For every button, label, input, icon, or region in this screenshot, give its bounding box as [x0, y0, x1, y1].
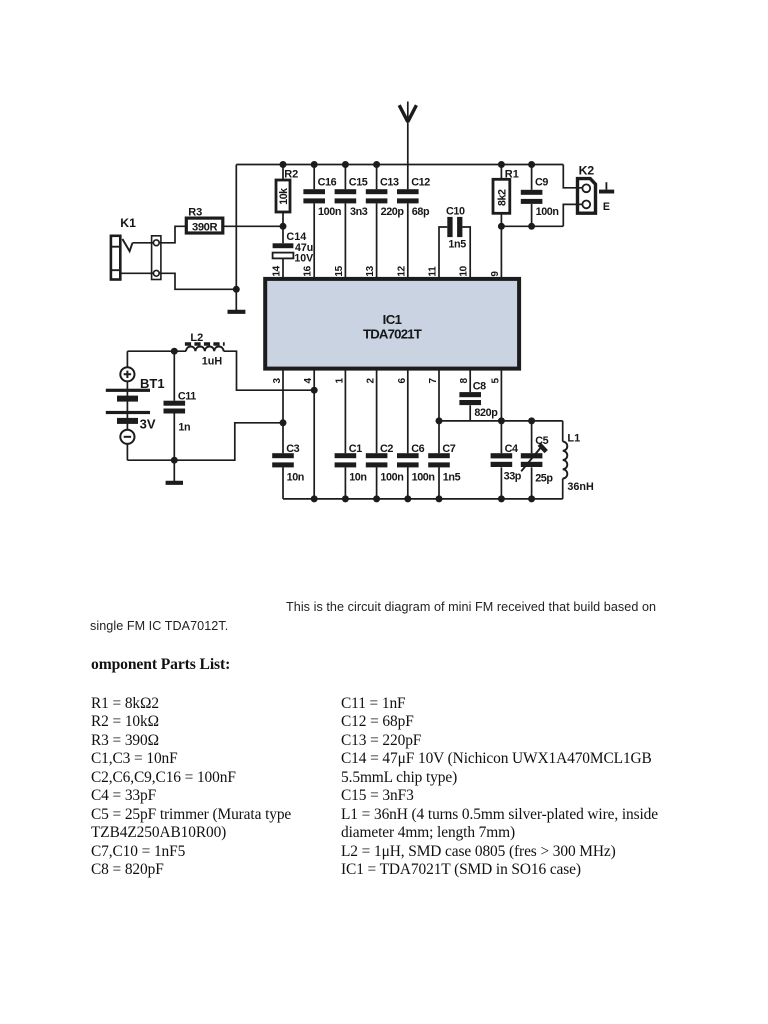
- svg-text:C8: C8: [473, 380, 486, 392]
- capacitor C2 100n: [366, 369, 404, 499]
- wire battery bottom rail: [127, 423, 283, 460]
- svg-text:8: 8: [459, 378, 470, 384]
- svg-text:3: 3: [272, 378, 283, 384]
- svg-text:100n: 100n: [412, 472, 435, 484]
- node bus C4: [498, 495, 505, 502]
- node bus C2: [373, 495, 380, 502]
- svg-text:C6: C6: [411, 443, 424, 455]
- svg-text:10k: 10k: [278, 188, 290, 205]
- svg-text:33p: 33p: [504, 470, 522, 482]
- capacitor C12 68p: [397, 165, 430, 279]
- node pin3 wire: [280, 419, 287, 426]
- connector K1: [111, 216, 161, 280]
- svg-text:K2: K2: [579, 163, 595, 177]
- trimmer capacitor C5 25p: [521, 421, 554, 499]
- earphone symbol E: [599, 182, 614, 213]
- wire mid rail pins 7-5 to L1: [439, 420, 563, 422]
- node bus C9: [528, 161, 535, 168]
- resistor R2 10k: [276, 165, 298, 227]
- resistor R1 8k2: [493, 165, 519, 279]
- wire to K2 top: [563, 165, 582, 188]
- capacitor C8 820p: [459, 369, 498, 421]
- node bus C16: [311, 161, 318, 168]
- capacitor C11 1n: [164, 351, 197, 460]
- capacitor C14 47u 10V: [273, 226, 314, 279]
- capacitor C1 10n: [335, 369, 367, 499]
- svg-text:1n5: 1n5: [443, 472, 461, 484]
- svg-text:C11: C11: [178, 390, 196, 402]
- wire R3 to R2 node: [223, 225, 283, 227]
- node pin4 wire: [311, 387, 318, 394]
- node bus C1: [342, 495, 349, 502]
- ground: [228, 310, 246, 314]
- connector K2: [578, 163, 596, 213]
- svg-text:10n: 10n: [349, 472, 366, 484]
- wire to K2 bottom: [563, 204, 582, 226]
- capacitor C13 220p: [366, 165, 405, 279]
- svg-text:C14: C14: [286, 231, 306, 243]
- svg-text:R1: R1: [505, 168, 519, 180]
- svg-text:3V: 3V: [140, 417, 156, 432]
- wire bus left drop: [235, 165, 237, 312]
- node C5 rail: [528, 417, 535, 424]
- parts list heading: [91, 656, 230, 675]
- node C9 bottom: [528, 223, 535, 230]
- svg-text:100n: 100n: [380, 472, 403, 484]
- parts list right column: [341, 695, 658, 880]
- wire BT1 top to L2: [127, 350, 186, 352]
- svg-text:C15: C15: [349, 177, 368, 189]
- svg-text:15: 15: [334, 265, 345, 276]
- svg-text:3n3: 3n3: [350, 206, 368, 218]
- svg-text:12: 12: [396, 265, 407, 276]
- svg-text:220p: 220p: [381, 206, 405, 218]
- capacitor C10 1n5: [439, 205, 470, 279]
- svg-text:16: 16: [303, 265, 314, 276]
- capacitor C9 100n: [521, 165, 559, 227]
- wire pin 4 down: [313, 369, 315, 499]
- svg-text:1n5: 1n5: [448, 238, 466, 250]
- svg-text:36nH: 36nH: [567, 481, 594, 493]
- svg-text:C5: C5: [535, 435, 548, 447]
- svg-text:100n: 100n: [536, 206, 559, 218]
- svg-text:14: 14: [272, 265, 283, 276]
- svg-text:820p: 820p: [474, 407, 498, 419]
- node pin5 rail: [498, 417, 505, 424]
- svg-text:6: 6: [397, 378, 408, 384]
- capacitor C7 1n5: [428, 369, 460, 499]
- op-amp IC1 TDA7021T body: [265, 279, 519, 369]
- wire top bus: [236, 164, 563, 166]
- svg-text:1: 1: [334, 378, 345, 384]
- ground below C11: [166, 460, 183, 483]
- svg-text:9: 9: [490, 271, 501, 277]
- node bus R2: [280, 161, 287, 168]
- svg-text:100n: 100n: [318, 206, 341, 218]
- wire R1 C9 bottom rail: [501, 225, 563, 227]
- node C11 bottom: [171, 457, 178, 464]
- node bus pin4: [311, 495, 318, 502]
- svg-text:L1: L1: [567, 432, 580, 444]
- parts list left column: [91, 695, 291, 880]
- wire bottom bus: [283, 498, 563, 500]
- antenna: [399, 102, 416, 165]
- svg-text:IC1: IC1: [383, 312, 402, 327]
- svg-text:7: 7: [428, 378, 439, 384]
- inductor L1 36nH: [563, 421, 594, 499]
- svg-text:C3: C3: [286, 443, 299, 455]
- svg-text:10: 10: [459, 265, 470, 276]
- svg-text:TDA7021T: TDA7021T: [363, 326, 422, 341]
- svg-text:K1: K1: [120, 216, 136, 230]
- node C11 top: [171, 348, 178, 355]
- svg-text:13: 13: [365, 265, 376, 276]
- capacitor C16 100n: [303, 165, 341, 279]
- svg-text:C4: C4: [505, 443, 518, 455]
- svg-text:8k2: 8k2: [497, 189, 509, 206]
- svg-text:C2: C2: [380, 443, 393, 455]
- svg-text:1n: 1n: [178, 421, 190, 433]
- svg-text:1uH: 1uH: [202, 356, 223, 368]
- wire K1 bottom to ground node: [120, 273, 236, 289]
- caption text: [286, 600, 656, 614]
- svg-text:5: 5: [490, 378, 501, 384]
- node bus C7: [436, 495, 443, 502]
- svg-text:10V: 10V: [294, 252, 313, 264]
- svg-text:L2: L2: [190, 332, 203, 344]
- svg-text:C7: C7: [442, 443, 455, 455]
- svg-text:C10: C10: [446, 205, 465, 217]
- svg-text:E: E: [603, 201, 610, 213]
- capacitor C6 100n: [397, 369, 435, 499]
- node bus C5: [528, 495, 535, 502]
- capacitor C3 10n: [272, 369, 304, 499]
- resistor R3 390R: [186, 207, 223, 234]
- node junction K1-bottom: [233, 286, 240, 293]
- inductor L2 1uH: [185, 332, 225, 368]
- svg-text:25p: 25p: [535, 472, 553, 484]
- svg-text:4: 4: [303, 378, 314, 384]
- svg-text:68p: 68p: [412, 206, 430, 218]
- svg-text:R3: R3: [188, 207, 202, 219]
- svg-text:2: 2: [366, 378, 377, 384]
- svg-text:C12: C12: [411, 177, 430, 189]
- svg-text:C1: C1: [349, 443, 362, 455]
- capacitor C15 3n3: [335, 165, 368, 279]
- svg-text:BT1: BT1: [140, 376, 165, 391]
- node bus C15: [342, 161, 349, 168]
- svg-text:R2: R2: [284, 169, 298, 181]
- svg-text:11: 11: [428, 266, 439, 277]
- svg-text:C9: C9: [535, 177, 548, 189]
- capacitor C4 33p: [491, 421, 522, 499]
- wire pin 5 down: [500, 369, 502, 421]
- wire L2 to pin 4: [224, 351, 315, 390]
- node bus C6: [404, 495, 411, 502]
- svg-text:10n: 10n: [287, 472, 304, 484]
- node R1 bottom: [498, 223, 505, 230]
- svg-text:390R: 390R: [192, 221, 217, 233]
- wire K1 top to R3: [133, 226, 187, 243]
- svg-text:C16: C16: [318, 177, 337, 189]
- battery BT1 3V: [106, 351, 165, 460]
- node R2 bottom: [280, 223, 287, 230]
- node bus C13: [373, 161, 380, 168]
- node pin7 rail: [436, 417, 443, 424]
- svg-text:C13: C13: [380, 177, 399, 189]
- node bus R1: [498, 161, 505, 168]
